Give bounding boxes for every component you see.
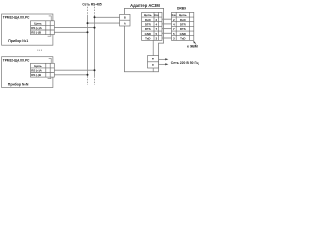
wire bus A (left RS-485 line, dashed top) bbox=[87, 7, 89, 15]
svg-text:DRB9: DRB9 bbox=[177, 7, 186, 11]
svg-text:...: ... bbox=[37, 46, 43, 51]
pin L mains with arrow bbox=[159, 58, 166, 60]
wire TxD adapter to DB9 bbox=[162, 37, 172, 39]
wire 220V feed from adapter table to plug bbox=[152, 40, 154, 55]
svg-text:RS (+)A: RS (+)A bbox=[31, 26, 42, 30]
svg-text:DTR: DTR bbox=[180, 23, 187, 27]
junction device2 B bbox=[94, 69, 96, 71]
wire device1 line A to bus A bbox=[54, 31, 87, 33]
junction adapter A bbox=[87, 22, 89, 24]
svg-text:В: В bbox=[124, 16, 126, 20]
svg-text:RTS: RTS bbox=[145, 27, 151, 31]
wire RTS adapter to DB9 bbox=[162, 28, 172, 30]
wire GND adapter to DB9 bbox=[162, 32, 172, 34]
svg-text:TxD: TxD bbox=[145, 37, 150, 41]
svg-text:Кон: Кон bbox=[154, 14, 159, 17]
svg-text:Цепь: Цепь bbox=[179, 13, 187, 17]
svg-text:ТРМ32-Щ4.ХХ.РС: ТРМ32-Щ4.ХХ.РС bbox=[3, 59, 30, 63]
adapter terminal table (Цепь / Кон) bbox=[142, 12, 162, 40]
wire device2 line B to bus B bbox=[54, 69, 94, 71]
svg-text:Сеть RS-485: Сеть RS-485 bbox=[82, 2, 101, 6]
svg-text:ТРМ32-Щ4.ХХ.РС: ТРМ32-Щ4.ХХ.РС bbox=[3, 15, 30, 19]
wire bus B (right RS-485 line, dashed top) bbox=[94, 7, 96, 15]
svg-text:А: А bbox=[124, 22, 126, 26]
connector X2 mains plug (2 cells) bbox=[148, 56, 159, 68]
junction adapter B bbox=[94, 16, 96, 18]
svg-text:Прибор №N: Прибор №N bbox=[8, 82, 29, 86]
svg-text:RTS: RTS bbox=[180, 27, 186, 31]
junction device1 B bbox=[94, 27, 96, 29]
svg-text:TxD: TxD bbox=[180, 37, 185, 41]
svg-text:DTR: DTR bbox=[145, 23, 152, 27]
svg-text:RS (-)B: RS (-)B bbox=[31, 73, 42, 77]
wire bus B dashed bottom bbox=[94, 76, 96, 85]
svg-text:Цепь: Цепь bbox=[144, 13, 152, 17]
junction device2 A bbox=[87, 74, 89, 76]
wire bus A dashed bottom bbox=[87, 76, 89, 85]
device box Прибор №N bbox=[2, 57, 55, 88]
wire device2 line A to bus A bbox=[54, 74, 87, 76]
junction device1 A bbox=[87, 31, 89, 33]
svg-text:RS (+)A: RS (+)A bbox=[31, 68, 42, 72]
wire plug leg to case bottom bbox=[152, 68, 154, 72]
svg-text:Цепь: Цепь bbox=[34, 64, 42, 68]
wire bus B to adapter connector bbox=[95, 16, 120, 18]
device box Прибор №1 bbox=[2, 14, 55, 45]
adapter case АС3М outline bbox=[124, 8, 163, 71]
wire bus A solid bbox=[87, 15, 89, 76]
wire bus A to adapter connector bbox=[88, 22, 120, 24]
wire bus B solid bbox=[94, 15, 96, 76]
connector X1 RS-485 terminals (2 cells) bbox=[120, 14, 130, 26]
svg-text:RxD: RxD bbox=[145, 18, 151, 22]
pin N mains with arrow bbox=[159, 63, 166, 65]
svg-text:RS (-)B: RS (-)B bbox=[31, 31, 42, 35]
wire device1 line B to bus B bbox=[54, 27, 94, 29]
svg-text:RxD: RxD bbox=[180, 18, 186, 22]
svg-text:Сеть 220 В 50 Гц: Сеть 220 В 50 Гц bbox=[171, 61, 200, 65]
node: к ЭВМ label with arrow bbox=[194, 42, 196, 45]
svg-text:Цепь: Цепь bbox=[34, 21, 42, 25]
wire RxD adapter to DB9 bbox=[162, 18, 172, 20]
svg-text:Адаптер АС3М: Адаптер АС3М bbox=[130, 3, 160, 8]
wire DTR adapter to DB9 bbox=[162, 23, 172, 25]
svg-text:Кон: Кон bbox=[172, 14, 177, 17]
svg-text:GND: GND bbox=[180, 32, 186, 36]
svg-text:GND: GND bbox=[145, 32, 151, 36]
connector DRB9 table (Кон / Цепь) bbox=[172, 12, 194, 40]
svg-text:Прибор №1: Прибор №1 bbox=[8, 39, 28, 43]
svg-text:к ЭВМ: к ЭВМ bbox=[187, 45, 198, 49]
